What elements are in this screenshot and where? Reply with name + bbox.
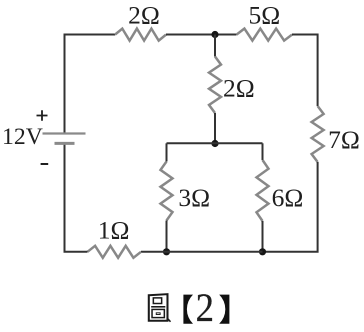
node dot middle (junction of 2ohm-mid,3ohm,6ohm): [211, 140, 218, 147]
resistor R 2ohm top: [115, 29, 166, 41]
caption left lenticular bracket: [183, 295, 193, 324]
resistor R 7ohm: [312, 106, 324, 162]
battery V1 positive plate (long): [43, 132, 86, 134]
node dot bottom-left (junction 1ohm,3ohm): [163, 248, 170, 255]
resistor R 5ohm: [237, 29, 293, 41]
wire mid-branch lower lead: [214, 113, 216, 143]
svg-text:2Ω: 2Ω: [223, 73, 255, 102]
wire right-bottom segment: [263, 162, 318, 252]
caption right lenticular bracket: [219, 295, 229, 324]
wire middle horizontal: [167, 142, 263, 144]
resistor R 3ohm: [161, 162, 173, 221]
wire top-left segment: [65, 35, 116, 134]
svg-text:2Ω: 2Ω: [128, 1, 160, 30]
wire 6ohm upper lead: [262, 143, 264, 160]
battery V1 negative plate (short thick): [55, 142, 75, 145]
node dot bottom-right (junction 6ohm, right wire): [259, 248, 266, 255]
resistor R 2ohm middle: [209, 57, 221, 114]
wire top-middle segment: [166, 34, 237, 36]
caption figure glyph TU (Chinese for figure): [149, 294, 171, 322]
svg-text:3Ω: 3Ω: [178, 183, 210, 212]
wire 3ohm lower lead: [166, 221, 168, 252]
wire 6ohm lower lead: [262, 221, 264, 252]
battery minus sign: [41, 163, 49, 165]
node dot top (junction of 2ohm,5ohm,2ohm-mid): [211, 31, 218, 38]
battery plus sign: [37, 110, 48, 121]
resistor R 6ohm: [257, 160, 269, 221]
svg-text:5Ω: 5Ω: [248, 1, 280, 30]
resistor R 1ohm: [88, 246, 142, 258]
svg-text:12V: 12V: [2, 124, 43, 150]
wire mid-branch upper lead: [214, 35, 216, 57]
svg-text:1Ω: 1Ω: [98, 215, 130, 244]
wire bottom-left segment: [65, 143, 88, 251]
wire bottom-middle segment: [141, 251, 263, 253]
svg-text:6Ω: 6Ω: [272, 183, 304, 212]
wire top-right corner segment: [292, 35, 318, 107]
wire 3ohm upper lead: [166, 143, 168, 161]
svg-text:7Ω: 7Ω: [328, 125, 360, 154]
svg-text:2: 2: [196, 287, 214, 331]
